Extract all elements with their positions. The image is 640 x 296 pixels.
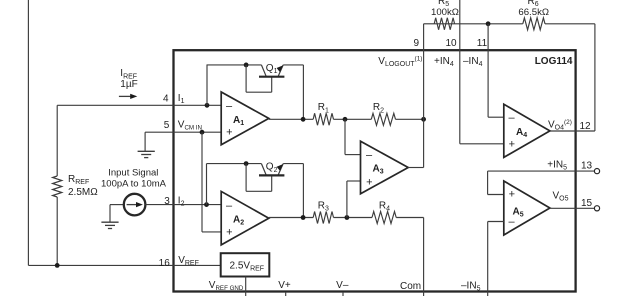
svg-text:13: 13 [581,160,593,171]
svg-text:100kΩ: 100kΩ [431,7,459,18]
svg-text:16: 16 [159,258,171,269]
svg-text:5: 5 [164,120,170,131]
svg-text:–: – [226,101,233,113]
svg-text:3: 3 [164,196,170,207]
svg-text:LOG114: LOG114 [535,56,573,67]
svg-text:2.5MΩ: 2.5MΩ [68,187,98,198]
svg-text:+: + [226,226,232,238]
svg-text:1µF: 1µF [120,79,137,90]
svg-text:100pA to 10mA: 100pA to 10mA [101,178,167,189]
svg-text:11: 11 [477,38,488,49]
svg-text:66.5kΩ: 66.5kΩ [518,7,549,18]
svg-text:V–: V– [336,280,349,291]
svg-text:4: 4 [163,93,169,104]
svg-text:10: 10 [445,38,457,49]
svg-text:–: – [508,216,515,228]
svg-text:15: 15 [581,198,593,209]
svg-text:9: 9 [414,38,420,49]
svg-text:V+: V+ [278,280,291,291]
svg-text:–: – [226,200,233,212]
svg-text:–: – [366,149,373,161]
svg-text:+: + [509,189,515,201]
svg-text:12: 12 [580,121,592,132]
svg-text:+: + [509,139,515,151]
svg-text:+: + [366,176,372,188]
svg-text:–: – [508,112,515,124]
svg-text:Com: Com [400,281,421,292]
svg-text:Input Signal: Input Signal [108,167,158,178]
svg-text:+: + [226,127,232,139]
